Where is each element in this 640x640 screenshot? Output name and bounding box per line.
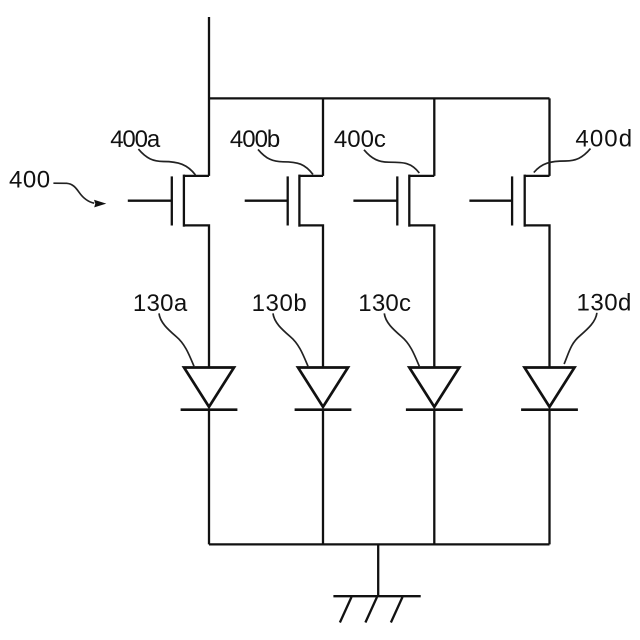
svg-text:400a: 400a — [110, 126, 161, 153]
svg-text:400d: 400d — [575, 126, 633, 153]
svg-text:130b: 130b — [252, 290, 308, 317]
svg-text:130a: 130a — [133, 290, 188, 317]
svg-text:400b: 400b — [230, 126, 280, 153]
svg-text:400c: 400c — [334, 126, 386, 153]
svg-text:130d: 130d — [577, 290, 632, 317]
svg-text:400: 400 — [9, 166, 51, 193]
svg-text:130c: 130c — [358, 290, 411, 317]
